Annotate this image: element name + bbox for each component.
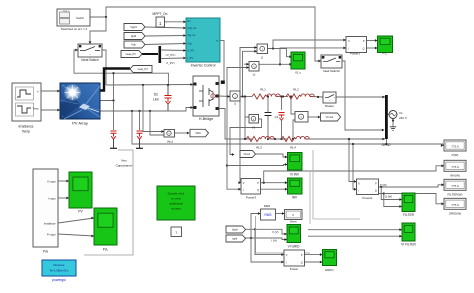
svg-text:Temp: Temp [22, 130, 30, 134]
svg-text:to view: to view [171, 197, 181, 201]
label PowerF [362, 196, 373, 200]
node F [317, 96, 319, 98]
scope GRIDs [323, 250, 337, 266]
svg-text:V1 c: V1 c [295, 70, 302, 74]
svg-text:I_PV: I_PV [187, 56, 193, 60]
svg-text:VDC: VDC [195, 131, 201, 135]
wire [165, 20, 187, 23]
wire [305, 261, 323, 264]
label INV [292, 196, 298, 200]
scope VI FILTER [402, 223, 415, 241]
svg-text:Switch: Switch [76, 16, 84, 20]
svg-text:additional: additional [169, 202, 183, 206]
RMS block [261, 209, 276, 220]
wire [259, 63, 292, 66]
svg-text:Ideal Switch: Ideal Switch [81, 58, 98, 62]
wire [219, 109, 252, 140]
wire [142, 53, 158, 55]
svg-text:PvL: PvL [103, 247, 109, 251]
wire [132, 111, 444, 147]
from tag Igrid [124, 33, 145, 40]
svg-text:775.9: 775.9 [451, 203, 459, 207]
label VI INV [290, 172, 300, 176]
wire [310, 150, 360, 224]
svg-text:meas_PV: meas_PV [137, 68, 148, 71]
power meter Power3 [241, 179, 261, 195]
wire [255, 229, 284, 256]
wire [74, 49, 115, 101]
wire [251, 238, 284, 263]
label Ideal Switch [81, 58, 98, 62]
svg-text:RL1: RL1 [260, 88, 266, 92]
voltmeter V1 [249, 115, 259, 124]
svg-text:775.9: 775.9 [451, 145, 459, 149]
label GRID> [325, 268, 335, 272]
wire [261, 188, 288, 191]
display GRID(W) [444, 198, 466, 209]
capacitor Ncap2 [136, 131, 143, 148]
wire [308, 235, 402, 238]
scope V1c [291, 52, 305, 69]
svg-text:V1: V1 [252, 126, 256, 130]
svg-text:240 V: 240 V [399, 116, 407, 120]
wire [230, 119, 262, 156]
svg-text:En: En [188, 19, 192, 23]
wire [367, 47, 378, 50]
wire [367, 39, 378, 42]
wire [276, 212, 285, 215]
label powergui [52, 278, 66, 282]
label I_PV [166, 61, 176, 65]
controller Inverter Control [186, 18, 220, 62]
wire [162, 57, 187, 60]
wire [379, 192, 403, 208]
node B [112, 99, 114, 101]
svg-text:DC: DC [154, 93, 159, 97]
label FILTER [403, 213, 414, 217]
display FILTER(W) [444, 179, 466, 190]
scope FILTER [402, 193, 415, 212]
power meter Power [284, 250, 305, 266]
label Vdc1 [167, 140, 174, 144]
from tag Vgrid [124, 24, 145, 31]
label MPPT_On [153, 12, 168, 16]
svg-text:Q (W): Q (W) [385, 195, 392, 199]
label P C [383, 52, 389, 56]
wire [145, 34, 186, 37]
svg-text:RL2: RL2 [293, 88, 299, 92]
label RL3 [256, 146, 262, 150]
label PV Array [72, 121, 88, 126]
wire [379, 183, 445, 187]
svg-text:Discrete: Discrete [53, 263, 64, 267]
svg-text:P (W): P (W) [380, 183, 387, 187]
label INV(W) [450, 174, 460, 178]
wire [145, 27, 186, 30]
wire [392, 119, 394, 127]
svg-text:775.9: 775.9 [451, 165, 459, 169]
svg-text:Q: Q [257, 189, 259, 192]
wire [113, 101, 115, 131]
wire [308, 116, 321, 119]
svg-text:RL4: RL4 [290, 146, 296, 150]
svg-text:Ir: Ir [37, 90, 39, 93]
svg-text:H-Bridge: H-Bridge [199, 117, 213, 121]
goto tag Vrms1 [321, 113, 341, 121]
label Power3 [246, 195, 257, 199]
svg-text:Power1: Power1 [350, 52, 361, 56]
svg-text:Igrid: Igrid [131, 34, 137, 38]
ammeter i2 [249, 62, 259, 72]
wire [90, 7, 321, 62]
label Pvs [43, 249, 49, 253]
label FILTER(W) [448, 193, 463, 197]
powergui [42, 260, 76, 276]
label V (V) [272, 230, 278, 234]
label V1 c [295, 70, 302, 74]
svg-text:Switched on at t = 2: Switched on at t = 2 [61, 27, 88, 31]
svg-text:Capacitance: Capacitance [116, 163, 133, 167]
PV array [60, 83, 100, 119]
display Vrms [285, 210, 303, 220]
wire [84, 150, 133, 255]
svg-text:dIg-ms: dIg-ms [188, 33, 197, 37]
svg-text:FILTER: FILTER [403, 213, 414, 217]
wire [106, 83, 193, 86]
svg-text:GRID: GRID [382, 143, 391, 147]
wire [279, 96, 288, 98]
scope VI GRID [287, 225, 301, 243]
wire [342, 61, 385, 131]
label RL1 [260, 88, 266, 92]
svg-text:RMS: RMS [264, 213, 271, 217]
svg-text:Breaker: Breaker [325, 105, 334, 108]
wire [58, 217, 94, 238]
label GRID [382, 143, 391, 147]
wire [267, 97, 269, 140]
svg-text:P(W): P(W) [452, 153, 459, 157]
label VI FILTER [401, 243, 416, 247]
scope PC [378, 36, 393, 53]
wire [352, 143, 357, 191]
wire [348, 138, 357, 183]
scope VI INV [288, 153, 303, 171]
constant MPPT_On [156, 17, 165, 27]
node gate [221, 81, 225, 84]
svg-text:Vrms1: Vrms1 [326, 115, 334, 119]
svg-text:GRID>: GRID> [325, 268, 335, 272]
label Switched on [61, 27, 88, 31]
wire [273, 39, 346, 49]
label Power1 [350, 52, 361, 56]
svg-text:P mppt: P mppt [47, 232, 56, 236]
inductor RL4 [281, 136, 309, 141]
svg-text:Q: Q [363, 48, 365, 51]
svg-text:C1: C1 [275, 115, 279, 119]
svg-text:Q: Q [301, 262, 303, 265]
svg-text:~: ~ [89, 53, 91, 57]
label V_PV [165, 53, 176, 57]
svg-text:VI GRID: VI GRID [288, 245, 301, 249]
svg-text:P C: P C [383, 52, 389, 56]
wire [381, 187, 402, 201]
svg-text:MPPT_On: MPPT_On [153, 12, 168, 16]
label P(W) [452, 153, 459, 157]
wire [256, 154, 288, 158]
svg-text:RL3: RL3 [256, 146, 262, 150]
from tag Vgrid2 [226, 226, 246, 233]
switch IS2 [321, 55, 342, 68]
scope PV [69, 172, 92, 208]
bus GRID [385, 95, 388, 139]
wire [245, 229, 287, 235]
wire [58, 180, 69, 200]
svg-text:Vgrid: Vgrid [130, 25, 137, 29]
wire [251, 212, 261, 238]
voltmeter Vdc1 [164, 130, 175, 138]
power meter Power1 [346, 37, 367, 53]
label VI GRID [288, 245, 301, 249]
inductor RL2 [286, 94, 314, 99]
svg-text:Step 1: Step 1 [63, 10, 70, 13]
svg-text:V: V [348, 39, 350, 43]
svg-text:775.9: 775.9 [451, 184, 459, 188]
wire [114, 73, 169, 85]
wire [219, 95, 230, 98]
svg-text:powergui: powergui [52, 278, 66, 282]
scope PVL [94, 208, 117, 245]
label Irradiance Temp [18, 125, 33, 134]
svg-text:dVg-ms: dVg-ms [188, 26, 198, 30]
wire [41, 90, 60, 112]
svg-text:V_PV: V_PV [188, 48, 195, 52]
wire [102, 50, 106, 85]
svg-text:meas_PV: meas_PV [125, 53, 136, 56]
svg-text:<V_PV>: <V_PV> [165, 53, 176, 57]
button block [171, 227, 182, 237]
node K [290, 95, 294, 140]
capacitor C2 [279, 113, 285, 121]
label DC Link [153, 93, 159, 102]
label Vrms [290, 219, 297, 223]
goto tag meas_PV [130, 66, 152, 73]
capacitor Ncap1 [110, 131, 117, 148]
wire [145, 42, 186, 45]
svg-text:Vdc: Vdc [131, 43, 136, 47]
wire [256, 216, 310, 253]
label Ideal Switch2 [323, 69, 340, 73]
svg-text:INV: INV [292, 196, 298, 200]
wire [139, 111, 141, 130]
source Irradiance Temp [12, 83, 41, 121]
wire [281, 97, 283, 140]
svg-text:Temp: Temp [33, 107, 40, 110]
label V1 [252, 126, 256, 130]
label C1 [275, 115, 279, 119]
scope INV [288, 178, 303, 194]
node G [267, 138, 283, 140]
node L [263, 182, 265, 184]
ammeter i1 [230, 91, 240, 101]
svg-text:Vdc: Vdc [188, 41, 193, 45]
wire [305, 253, 323, 256]
label Vs 240 V [399, 111, 407, 120]
svg-text:V mppt: V mppt [47, 179, 56, 183]
svg-text:Vgrid: Vgrid [232, 229, 238, 232]
svg-text:Igrid: Igrid [232, 238, 237, 241]
node M [254, 228, 256, 230]
svg-text:Ts=1.383e-05 s: Ts=1.383e-05 s [49, 268, 69, 272]
label H-Bridge [199, 117, 213, 121]
svg-text:I (A): I (A) [272, 239, 277, 243]
node O [380, 186, 382, 188]
label PV [78, 210, 83, 214]
label i3 [261, 55, 264, 59]
node E [282, 95, 284, 97]
wire [143, 85, 164, 133]
wire [174, 132, 190, 135]
svg-text:Inverter Control: Inverter Control [191, 64, 216, 68]
svg-text:Vs: Vs [399, 111, 403, 115]
node N [250, 237, 252, 239]
label breaker [325, 105, 334, 108]
svg-text:GRID(W): GRID(W) [449, 212, 461, 216]
wire [245, 97, 249, 140]
svg-text:Power3: Power3 [246, 195, 257, 199]
label RMS [264, 204, 270, 208]
svg-text:V (V): V (V) [272, 230, 278, 234]
svg-text:I mppt: I mppt [48, 196, 56, 200]
from tag meas_PV [121, 51, 142, 58]
label RL4 [290, 146, 296, 150]
wire [241, 50, 257, 98]
label Neu Capacitance [116, 159, 133, 168]
svg-text:Irradiance: Irradiance [44, 221, 56, 225]
voltmeter V2 [295, 112, 308, 123]
label RL2 [293, 88, 299, 92]
svg-text:VI INV: VI INV [290, 172, 300, 176]
svg-text:PV Array: PV Array [72, 121, 88, 126]
node J [244, 95, 246, 140]
display INV(W) [444, 160, 466, 171]
wire [384, 194, 444, 206]
wire [385, 114, 389, 116]
label Inverter Control [191, 64, 216, 68]
svg-text:Irradiance: Irradiance [18, 125, 33, 129]
ground [390, 127, 396, 131]
wire [226, 163, 288, 167]
display P(W) [444, 140, 466, 151]
wire [150, 111, 164, 135]
wire [227, 66, 249, 191]
from tag Vdc [124, 41, 145, 48]
wire [291, 97, 295, 140]
label GRID(W) [449, 212, 461, 216]
svg-text:Power1: Power1 [362, 196, 373, 200]
wire [305, 138, 385, 141]
svg-text:Vdc1: Vdc1 [167, 140, 174, 144]
switch IS1 [78, 44, 102, 57]
demux [159, 46, 162, 63]
annotation scopes note [157, 186, 195, 220]
label i1 [234, 102, 237, 106]
svg-text:Vrms: Vrms [290, 219, 297, 223]
wire [271, 138, 288, 140]
svg-text:RMS: RMS [264, 204, 270, 208]
inductor RL1 [252, 94, 280, 99]
subsystem Switch [57, 9, 90, 26]
svg-text:FILTER(W): FILTER(W) [448, 193, 463, 197]
svg-text:INV(W): INV(W) [450, 174, 460, 178]
wire [240, 96, 252, 98]
wire [268, 47, 293, 58]
svg-text:PV: PV [78, 210, 83, 214]
svg-text:<I_PV>: <I_PV> [166, 61, 176, 65]
capacitor C1 [265, 110, 272, 120]
subsystem Pvs [33, 169, 58, 247]
wire [261, 181, 288, 184]
svg-text:Double-click: Double-click [168, 192, 185, 196]
svg-text:Pvs: Pvs [43, 249, 49, 253]
svg-text:?: ? [175, 231, 177, 235]
wire [264, 164, 444, 182]
bridge H-Bridge [193, 76, 219, 116]
ammeter i3 [257, 44, 268, 54]
goto tag VDC [190, 129, 209, 137]
svg-text:Neu: Neu [121, 159, 127, 163]
breaker B1 [323, 92, 336, 103]
svg-text:scopes: scopes [171, 207, 181, 211]
node H [267, 95, 269, 97]
wire [220, 40, 224, 81]
wire [311, 96, 385, 99]
wire [100, 69, 130, 91]
svg-text:Power: Power [290, 267, 299, 271]
wire [238, 46, 257, 184]
wire [89, 17, 106, 44]
wire [162, 49, 187, 52]
source Vs 240V [389, 111, 397, 119]
wire [245, 238, 287, 241]
inductor RL3 [246, 136, 274, 141]
svg-text:Link: Link [153, 98, 159, 102]
label PvL [103, 247, 109, 251]
label Q (W) [385, 195, 392, 199]
label Power [290, 267, 299, 271]
wire [280, 46, 346, 64]
node D [131, 110, 151, 112]
wire [308, 228, 402, 231]
from tag Vinv [240, 151, 256, 158]
power meter PowerF [357, 179, 379, 195]
wire [100, 106, 193, 111]
capacitor DC Link [165, 85, 172, 111]
wire [244, 63, 249, 66]
label P (W) [380, 183, 387, 187]
svg-text:Ideal Switch2: Ideal Switch2 [323, 69, 340, 73]
label I (A) [272, 239, 277, 243]
wire [385, 139, 387, 145]
from tag Igrid2 [226, 235, 246, 242]
node I [280, 95, 282, 97]
svg-text:Q: Q [375, 190, 377, 193]
label i2 [253, 73, 256, 77]
node C [142, 84, 169, 86]
svg-text:VI FILTER: VI FILTER [401, 243, 416, 247]
node A [105, 16, 107, 18]
svg-text:Vrms1: Vrms1 [243, 153, 250, 156]
